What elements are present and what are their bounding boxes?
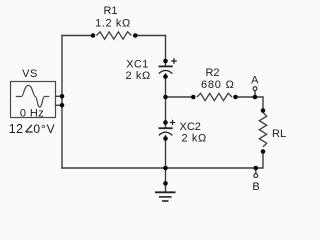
terminal dot VS bottom — [60, 103, 65, 108]
junction dot bottom rail / ground node — [163, 166, 168, 171]
wire junction to XC2 — [165, 97, 167, 128]
wire XC2 to bottom rail — [165, 136, 167, 168]
resistor RL — [259, 113, 266, 147]
ground — [155, 181, 176, 201]
wire ground lead — [165, 168, 167, 192]
svg-text:RL: RL — [272, 128, 286, 140]
junction dot R2 left — [191, 95, 196, 100]
wire bottom rail — [62, 167, 256, 169]
svg-text:0 Hz: 0 Hz — [20, 107, 44, 119]
wire VS top terminal stub — [56, 95, 63, 97]
svg-text:B: B — [252, 181, 259, 193]
svg-text:680 Ω: 680 Ω — [201, 79, 235, 91]
terminal circle node A — [253, 87, 257, 91]
svg-text:VS: VS — [22, 68, 38, 80]
resistor R1 — [97, 32, 132, 39]
value 12 angle 0 deg V — [9, 122, 56, 136]
wire left vertical — [61, 36, 63, 169]
wire mid vertical down to XC1 — [165, 36, 167, 67]
junction dot R2 right — [233, 95, 238, 100]
capacitor XC2 (polarized) — [159, 120, 176, 141]
wire junction to R2 — [166, 96, 194, 98]
wire node A terminal stub — [254, 91, 256, 98]
svg-text:2 kΩ: 2 kΩ — [182, 133, 207, 145]
svg-text:R2: R2 — [205, 67, 219, 79]
terminal dot VS top — [60, 94, 65, 99]
capacitor XC1 (polarized) — [159, 58, 177, 79]
wire XC1 to junction — [165, 74, 167, 97]
wire top rail left of R1 — [62, 35, 93, 37]
svg-text:1.2 kΩ: 1.2 kΩ — [95, 17, 131, 29]
junction dot XC1/XC2/R2 node — [163, 95, 168, 100]
wire RL bottom corner — [256, 152, 263, 169]
svg-text:XC2: XC2 — [180, 121, 201, 133]
wire VS bottom terminal stub — [56, 104, 63, 106]
terminal circle node B — [254, 174, 258, 178]
junction dot R1 right — [133, 33, 138, 38]
junction dot R1 left — [91, 33, 96, 38]
wire R2 to node A — [236, 96, 256, 98]
wire R1 to mid vertical — [135, 35, 165, 37]
junction dot RL top — [261, 108, 266, 113]
junction dot node B — [254, 166, 259, 171]
wire corner to RL top — [255, 97, 263, 111]
svg-text:0°V: 0°V — [33, 122, 55, 136]
junction dot node A — [253, 95, 258, 100]
source VS (AC source box with sine wave) — [11, 82, 56, 118]
wire node B terminal stub — [255, 168, 257, 174]
junction dot RL bottom — [261, 149, 266, 154]
svg-text:2 kΩ: 2 kΩ — [126, 70, 151, 82]
resistor R2 — [197, 93, 232, 100]
svg-text:R1: R1 — [103, 5, 117, 17]
svg-text:XC1: XC1 — [126, 58, 148, 70]
svg-text:12: 12 — [9, 122, 24, 136]
svg-text:A: A — [251, 75, 259, 87]
